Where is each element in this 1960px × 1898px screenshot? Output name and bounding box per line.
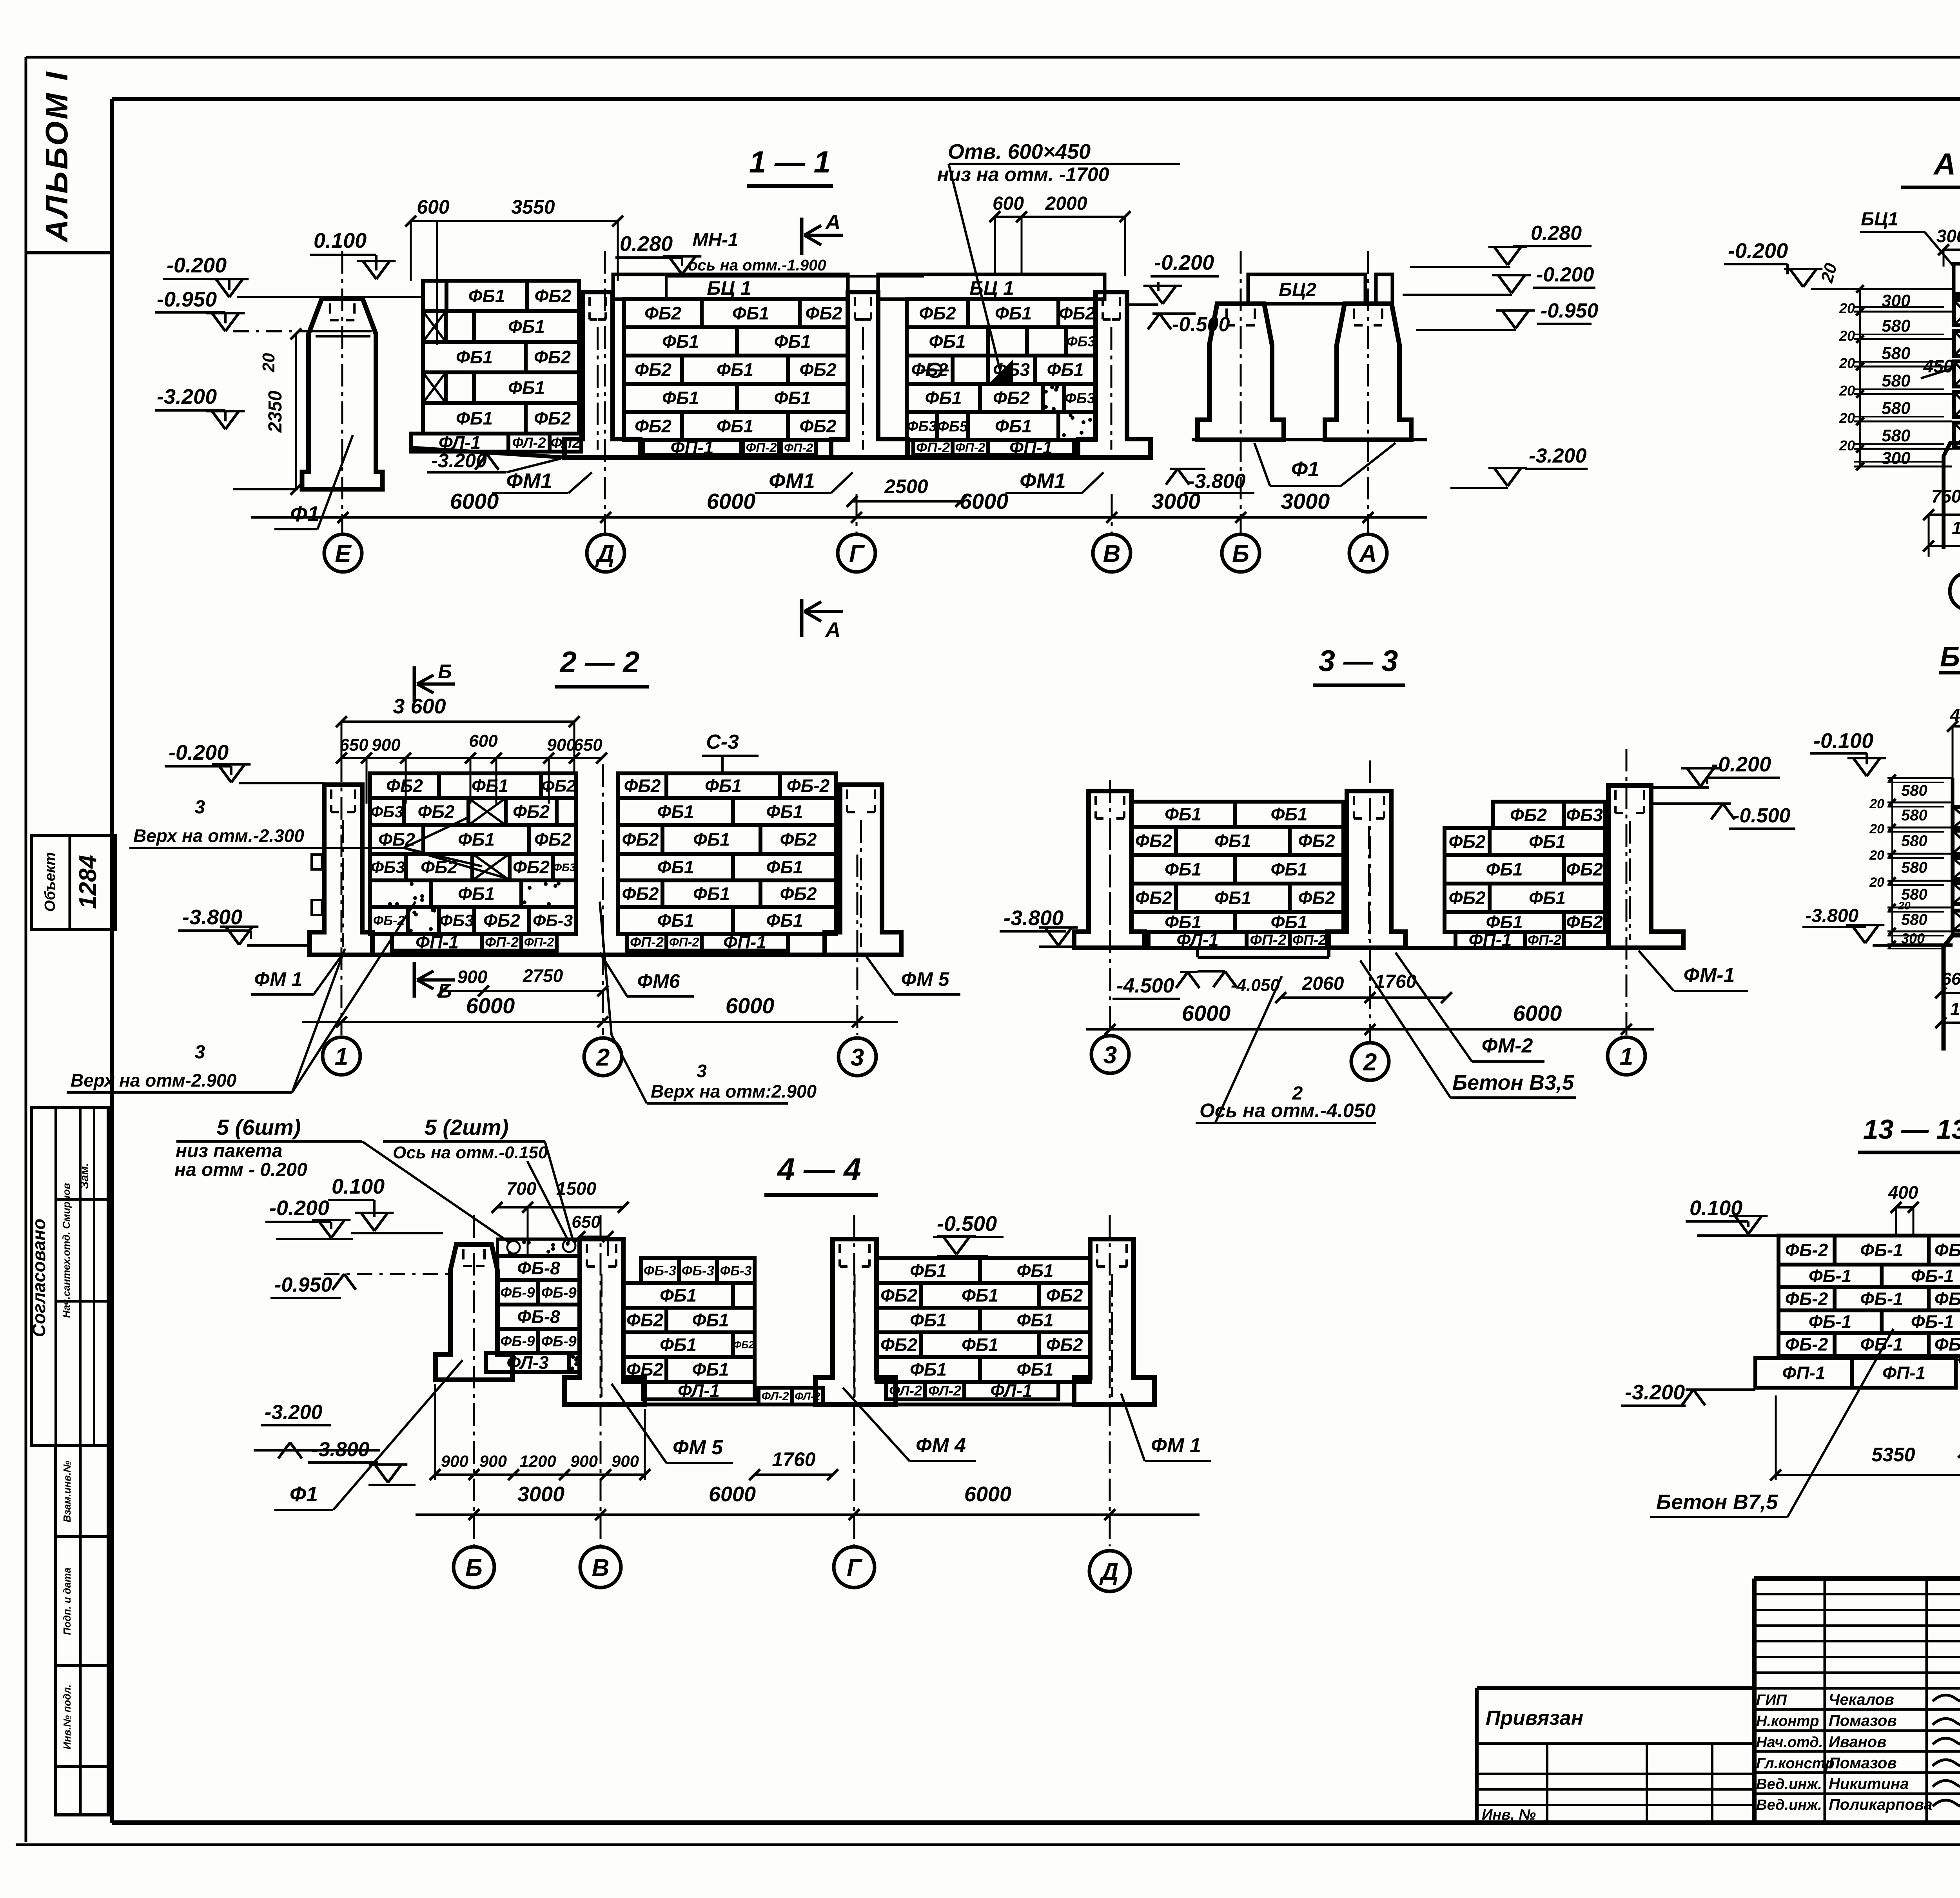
label F1 right <box>1254 443 1396 486</box>
axis bubble 1 3-3 <box>1608 1037 1645 1075</box>
svg-text:ФП-2: ФП-2 <box>746 440 777 455</box>
svg-text:ФП-1: ФП-1 <box>416 932 459 953</box>
svg-text:300: 300 <box>1882 449 1911 468</box>
svg-text:ФБ3: ФБ3 <box>907 418 937 434</box>
label F1 left <box>274 435 353 529</box>
svg-text:20: 20 <box>1898 900 1911 912</box>
svg-text:Взам.инв.№: Взам.инв.№ <box>61 1461 73 1522</box>
level 0.100 4-4 <box>328 1175 443 1233</box>
svg-text:ФЛ-2: ФЛ-2 <box>889 1383 922 1399</box>
base flare 13-13 <box>1959 1358 1960 1388</box>
svg-text:В: В <box>1103 540 1121 567</box>
svg-text:Нач.сантех.отд. Смирнов: Нач.сантех.отд. Смирнов <box>60 1183 72 1318</box>
svg-text:5 (6шт): 5 (6шт) <box>217 1115 301 1140</box>
axis bubble D 4-4 <box>1089 1551 1130 1591</box>
svg-text:ФБ-9: ФБ-9 <box>501 1285 535 1301</box>
svg-text:ФЛ-1: ФЛ-1 <box>990 1381 1032 1401</box>
svg-text:А: А <box>825 618 841 642</box>
svg-text:Привязан: Привязан <box>1486 1707 1583 1729</box>
svg-text:ФП-2: ФП-2 <box>784 441 813 454</box>
svg-text:ФМ6: ФМ6 <box>637 970 680 992</box>
levels stack right of section 1-1 <box>1403 222 1599 488</box>
slab row FP under wall 3 <box>913 437 1074 458</box>
axis bubble B <box>1222 534 1259 572</box>
svg-text:3000: 3000 <box>1281 489 1330 514</box>
svg-text:Чекалов: Чекалов <box>1829 1691 1894 1708</box>
svg-text:ФБ3: ФБ3 <box>371 858 405 877</box>
svg-text:ФБ1: ФБ1 <box>962 1335 998 1355</box>
slab FL-1 4-4 wall2 <box>643 1381 755 1401</box>
svg-text:МН-1: МН-1 <box>692 230 738 250</box>
svg-text:900: 900 <box>479 1452 507 1470</box>
svg-text:ФП-2: ФП-2 <box>669 935 699 949</box>
svg-text:6000: 6000 <box>466 993 515 1018</box>
centerline axis 2 2-2 <box>602 764 604 1035</box>
level -0.500 3-3 <box>1651 804 1795 829</box>
level 0.100 13-13 <box>1686 1196 1779 1236</box>
beam strip BC1 over wall3 <box>878 274 1105 299</box>
svg-text:3 600: 3 600 <box>393 695 446 718</box>
svg-text:3: 3 <box>851 1044 864 1071</box>
block wall 4-4 B-V <box>497 1256 580 1353</box>
level -0.500 right <box>1148 313 1230 336</box>
svg-text:Д: Д <box>1099 1558 1119 1585</box>
svg-text:2750: 2750 <box>523 965 563 986</box>
svg-text:-0.200: -0.200 <box>1536 263 1594 286</box>
axis bubble V <box>1093 534 1131 572</box>
svg-text:Помазов: Помазов <box>1829 1755 1897 1772</box>
slab row 4-4 wall3 <box>886 1381 1058 1401</box>
centerline axis V 4-4 <box>600 1215 602 1546</box>
svg-text:-3.200: -3.200 <box>157 385 217 408</box>
svg-text:ФБ2: ФБ2 <box>1046 1285 1083 1306</box>
stamp column podpis i data <box>56 1537 108 1666</box>
dim 450 150 A-A <box>1921 352 1960 378</box>
svg-text:Никитина: Никитина <box>1829 1775 1909 1793</box>
opening filled triangle <box>990 359 1013 382</box>
block wall 3-3 left <box>1131 802 1343 932</box>
svg-text:ФЛ-2: ФЛ-2 <box>762 1390 789 1403</box>
svg-text:ГИП: ГИП <box>1756 1692 1787 1708</box>
svg-text:-0.500: -0.500 <box>1172 313 1230 336</box>
svg-text:ФБ2: ФБ2 <box>799 359 836 380</box>
svg-text:-0.200: -0.200 <box>169 741 229 764</box>
label FM1 2-2 <box>251 956 341 994</box>
label FM1 4-4 <box>1121 1394 1211 1461</box>
svg-text:3: 3 <box>195 797 205 818</box>
svg-text:-3.800: -3.800 <box>312 1438 370 1461</box>
section title A-A <box>1901 147 1960 187</box>
svg-text:580: 580 <box>1901 859 1927 876</box>
svg-text:1 — 1: 1 — 1 <box>749 145 831 179</box>
block wall 2-2 left <box>370 773 576 934</box>
svg-text:ФБ1: ФБ1 <box>995 303 1032 323</box>
svg-text:ФБ2: ФБ2 <box>386 776 423 796</box>
label FM5 <box>866 956 960 994</box>
svg-text:ФБ1: ФБ1 <box>1047 359 1083 380</box>
svg-text:Ф1: Ф1 <box>1291 457 1319 481</box>
svg-text:2 — 2: 2 — 2 <box>559 646 640 679</box>
svg-text:ФБ1: ФБ1 <box>1486 859 1523 880</box>
level -0.200 left <box>163 254 421 297</box>
svg-text:580: 580 <box>1901 833 1927 850</box>
left dim stack 300 580 A-A <box>1817 261 1952 470</box>
svg-text:ФМ1: ФМ1 <box>1020 469 1066 493</box>
svg-text:ФБ1: ФБ1 <box>774 388 811 408</box>
callout 3 verh na otm -2.900 lower <box>67 902 416 1092</box>
level 0.100 above footing F1-E <box>310 229 396 279</box>
centerline axis D 4-4 <box>1109 1215 1111 1546</box>
callout 3 verh na otm 2.900 bottom <box>600 902 817 1103</box>
svg-text:ФБ1: ФБ1 <box>458 829 495 850</box>
svg-text:ФБ2: ФБ2 <box>1566 859 1603 880</box>
svg-text:6000: 6000 <box>707 489 756 514</box>
svg-text:1500: 1500 <box>556 1178 597 1199</box>
svg-text:ФП-1: ФП-1 <box>1782 1363 1826 1383</box>
callout C-3 <box>702 731 759 773</box>
svg-text:2000: 2000 <box>1045 193 1087 214</box>
title block frame <box>1754 1579 1960 1823</box>
svg-text:ФБ2: ФБ2 <box>513 802 550 822</box>
svg-text:ФП-2: ФП-2 <box>630 934 664 950</box>
pilaster axis D 4-4 <box>1074 1239 1154 1404</box>
svg-text:-4.050: -4.050 <box>1231 976 1280 995</box>
dim 1200 B-B <box>1935 999 1960 1028</box>
svg-text:ФБ2: ФБ2 <box>534 286 571 306</box>
svg-text:-3.800: -3.800 <box>1805 905 1858 926</box>
pilaster axis 2 2-2 <box>825 785 901 955</box>
block wall 4-4 V-G <box>623 1258 755 1382</box>
dim row 900 900 1200 900 900 4-4 <box>430 1384 650 1480</box>
svg-text:ФМ-2: ФМ-2 <box>1482 1034 1533 1057</box>
svg-text:ФБ3: ФБ3 <box>370 803 403 821</box>
svg-text:0.100: 0.100 <box>314 229 367 252</box>
svg-text:20: 20 <box>259 353 278 372</box>
svg-text:ФБ1: ФБ1 <box>717 416 753 436</box>
svg-text:Ф1: Ф1 <box>290 501 319 526</box>
axis bubble G 4-4 <box>834 1547 875 1588</box>
svg-text:Н.контр: Н.контр <box>1756 1713 1819 1729</box>
svg-text:ФБ2: ФБ2 <box>993 388 1030 408</box>
base line FM1 right span <box>907 455 1078 460</box>
svg-text:ФБ1: ФБ1 <box>1214 831 1251 851</box>
soglasovano stamp box <box>29 1107 108 1446</box>
svg-text:ФБ2: ФБ2 <box>534 347 571 367</box>
svg-text:ФП-2: ФП-2 <box>485 934 519 950</box>
level -3.200 left <box>155 385 298 489</box>
level -0.200 2-2 <box>165 741 324 783</box>
svg-text:-0.200: -0.200 <box>1154 251 1214 274</box>
svg-text:ФБ1: ФБ1 <box>910 1261 947 1281</box>
svg-text:20: 20 <box>1839 437 1855 454</box>
level -3.800 2-2 <box>178 905 310 945</box>
svg-text:ФБ2: ФБ2 <box>635 416 671 436</box>
callout BC1 A-A <box>1860 209 1954 267</box>
svg-text:Помазов: Помазов <box>1829 1712 1897 1729</box>
svg-text:ФБ2: ФБ2 <box>483 910 520 931</box>
slab row 2-2 right <box>627 932 788 953</box>
svg-text:1200: 1200 <box>519 1452 556 1470</box>
svg-text:ФБ2: ФБ2 <box>622 884 659 904</box>
svg-text:700: 700 <box>506 1178 537 1199</box>
svg-text:ФП-1: ФП-1 <box>723 932 766 953</box>
svg-text:ФБ3: ФБ3 <box>1067 333 1096 349</box>
slab row 3-3 right <box>1455 930 1564 950</box>
centerline axis A <box>1367 251 1369 533</box>
svg-text:6000: 6000 <box>964 1482 1011 1506</box>
svg-text:ФБ1: ФБ1 <box>1165 912 1201 932</box>
svg-text:ФБ-2: ФБ-2 <box>1785 1240 1828 1260</box>
block wall 4-4 G-D <box>877 1258 1090 1382</box>
svg-text:ФБ-9: ФБ-9 <box>501 1333 535 1349</box>
ground line 4-4 <box>564 1403 1154 1406</box>
axis bubble 3 2-2 <box>838 1038 876 1076</box>
svg-text:-3.200: -3.200 <box>1625 1381 1685 1404</box>
svg-text:ФБ1: ФБ1 <box>508 316 545 337</box>
svg-text:ФБ1: ФБ1 <box>472 776 508 796</box>
svg-text:6000: 6000 <box>726 993 775 1018</box>
callout Otv 600x450 niz na otm -1700 <box>937 140 1180 368</box>
svg-text:900: 900 <box>612 1452 639 1470</box>
dim 650 4-4 <box>572 1212 613 1256</box>
svg-text:ФБ-3: ФБ-3 <box>1935 1289 1960 1309</box>
object stamp box 1284 <box>31 835 115 929</box>
svg-text:580: 580 <box>1901 807 1927 824</box>
svg-text:900: 900 <box>441 1452 468 1470</box>
base line FM1 mid span <box>640 455 831 460</box>
svg-text:ФБ1: ФБ1 <box>1529 831 1566 852</box>
svg-text:ФБ2: ФБ2 <box>1059 303 1095 323</box>
svg-text:ФБ-2: ФБ-2 <box>1785 1334 1828 1355</box>
centerline axis 1 3-3 <box>1626 749 1628 1037</box>
axis bubble 2 3-3 <box>1351 1043 1389 1080</box>
svg-text:580: 580 <box>1901 782 1927 799</box>
main dimension line 2-2 <box>302 993 898 1027</box>
svg-text:ФБ1: ФБ1 <box>458 884 495 904</box>
slab row 2-2 left <box>392 932 557 953</box>
centerline axis 3 2-2 <box>857 855 858 1035</box>
stamp column vzam inv <box>56 1446 108 1815</box>
svg-text:ФМ 1: ФМ 1 <box>1151 1434 1201 1457</box>
svg-text:2500: 2500 <box>884 475 928 497</box>
svg-text:0.280: 0.280 <box>1531 222 1582 245</box>
svg-text:6000: 6000 <box>709 1482 756 1506</box>
svg-text:6000: 6000 <box>450 489 499 514</box>
svg-text:ФБ-9: ФБ-9 <box>541 1285 576 1301</box>
svg-text:ФБ2: ФБ2 <box>622 829 659 850</box>
pilaster axis 3 3-3 <box>1074 791 1145 948</box>
pilaster axis G 4-4 <box>815 1239 896 1404</box>
label FM4 4-4 <box>843 1388 976 1461</box>
svg-text:Поликарпова: Поликарпова <box>1829 1796 1933 1813</box>
dim row 650 900 600 900 650 2-2 <box>336 731 607 804</box>
svg-text:ФЛ-1: ФЛ-1 <box>678 1381 720 1401</box>
section cut arrow B top 2-2 <box>414 660 455 702</box>
svg-text:ФБ1: ФБ1 <box>692 1310 729 1330</box>
svg-text:низ на отм. -1700: низ на отм. -1700 <box>937 163 1109 185</box>
svg-text:ФБ1: ФБ1 <box>692 1359 729 1380</box>
svg-text:ФБ2: ФБ2 <box>1510 805 1547 825</box>
svg-text:1: 1 <box>335 1043 348 1070</box>
svg-text:Объект: Объект <box>42 852 58 912</box>
svg-text:ФБ-1: ФБ-1 <box>1809 1266 1851 1286</box>
svg-text:ФБ1: ФБ1 <box>962 1285 998 1306</box>
svg-text:Ось на отм.-4.050: Ось на отм.-4.050 <box>1200 1100 1376 1121</box>
level -0.200 mid <box>1127 251 1219 305</box>
svg-text:БЦ1: БЦ1 <box>1861 209 1898 230</box>
svg-text:ФП-2: ФП-2 <box>955 441 985 455</box>
axis bubble D <box>587 534 624 572</box>
block wall 1-1 between G and V <box>907 299 1096 440</box>
dim 900 2750 2-2 <box>437 965 608 996</box>
footing F1 axis E <box>302 299 383 489</box>
svg-text:2350: 2350 <box>265 390 286 433</box>
svg-text:ФБ1: ФБ1 <box>717 359 753 380</box>
svg-text:БЦ 1: БЦ 1 <box>969 277 1014 299</box>
centerline axis V <box>1111 494 1113 533</box>
level -3.200 4-4 <box>254 1401 380 1459</box>
level -0.200 A-A left <box>1724 239 1954 289</box>
anchor circle symbol in wall <box>921 364 949 377</box>
svg-text:Верх на отм:2.900: Верх на отм:2.900 <box>651 1081 817 1101</box>
block wall 1-1 between D and G <box>624 299 848 440</box>
svg-text:ФБ2: ФБ2 <box>626 1359 663 1380</box>
centerline axis D <box>604 251 606 533</box>
svg-text:Согласовано: Согласовано <box>29 1219 49 1337</box>
axis bubble B 4-4 <box>454 1547 494 1588</box>
svg-text:Г: Г <box>849 540 865 567</box>
pilaster axis V <box>1078 292 1151 457</box>
svg-text:ФБ2: ФБ2 <box>534 829 571 850</box>
svg-text:ФМ1: ФМ1 <box>506 469 552 493</box>
svg-text:400: 400 <box>1888 1182 1918 1203</box>
svg-text:3 — 3: 3 — 3 <box>1319 644 1398 678</box>
section title 13-13 <box>1858 1114 1960 1152</box>
svg-text:ФБ1: ФБ1 <box>910 1310 947 1330</box>
axis bubble 1 2-2 <box>323 1037 360 1075</box>
dim 5350 13-13 <box>1770 1395 1960 1481</box>
svg-text:Иванов: Иванов <box>1829 1733 1886 1751</box>
svg-text:20: 20 <box>1839 300 1855 316</box>
svg-text:С-3: С-3 <box>706 731 739 753</box>
svg-text:ФБ-8: ФБ-8 <box>517 1306 560 1327</box>
pilaster axis D <box>564 292 640 457</box>
monolith top 4-4 wall1 <box>497 1239 580 1256</box>
dim 600 3550 above wall <box>405 196 623 345</box>
level -3.200 under wall1 <box>427 450 561 472</box>
svg-text:БЦ2: БЦ2 <box>1279 279 1316 300</box>
section title 1-1 <box>747 145 833 186</box>
svg-text:2: 2 <box>596 1044 610 1071</box>
section title 4-4 <box>764 1152 878 1195</box>
svg-text:Б: Б <box>1232 540 1249 567</box>
dim 450 150 B-B <box>1947 705 1960 778</box>
svg-text:низ пакета: низ пакета <box>176 1141 283 1161</box>
svg-text:ФБ-3: ФБ-3 <box>682 1263 715 1279</box>
svg-text:ФБ2: ФБ2 <box>417 802 454 822</box>
svg-text:ФБ2: ФБ2 <box>780 829 817 850</box>
slab row 3-3 left <box>1149 930 1329 950</box>
svg-text:1760: 1760 <box>772 1448 815 1470</box>
pilaster axis G <box>831 292 907 457</box>
svg-text:ФБ2: ФБ2 <box>644 303 681 323</box>
svg-text:Г: Г <box>847 1554 863 1581</box>
section title 2-2 <box>555 646 649 687</box>
svg-text:Нач.отд.: Нач.отд. <box>1756 1734 1823 1751</box>
footing F1 axis A right <box>1325 304 1411 440</box>
svg-text:-0.500: -0.500 <box>1733 804 1791 827</box>
svg-text:Инв.№ подл.: Инв.№ подл. <box>61 1684 73 1749</box>
base line FM1 left span <box>409 448 564 457</box>
label FM1 under wall3 <box>1005 469 1103 493</box>
signature squiggles <box>1933 1688 1960 1807</box>
svg-text:300: 300 <box>1882 291 1911 310</box>
level -3.200 13-13 <box>1621 1381 1755 1406</box>
dim 1200 13-13 <box>1958 1395 1960 1458</box>
svg-text:20: 20 <box>1869 848 1884 863</box>
stamp column inv n podl <box>56 1666 108 1815</box>
axis bubble 3 3-3 <box>1091 1036 1129 1073</box>
svg-text:-0.100: -0.100 <box>1813 729 1873 753</box>
svg-text:ФБ1: ФБ1 <box>1529 888 1566 908</box>
left dim stack B-B <box>1869 775 1953 949</box>
axis bubble V 4-4 <box>580 1547 621 1588</box>
pilaster axis V 4-4 <box>564 1239 645 1404</box>
svg-text:ФЛ-2: ФЛ-2 <box>512 435 546 451</box>
signature table names <box>1756 1691 1933 1813</box>
svg-text:Вед.инж.: Вед.инж. <box>1756 1776 1822 1793</box>
privyazan table <box>1477 1688 1754 1823</box>
svg-text:ФБ2: ФБ2 <box>534 408 571 428</box>
level -4.500 3-3 <box>1112 972 1200 999</box>
ground line 3-3 <box>1074 946 1683 950</box>
svg-text:ФБ1: ФБ1 <box>766 857 803 877</box>
svg-text:-0.500: -0.500 <box>937 1212 997 1236</box>
svg-text:900: 900 <box>372 735 401 755</box>
slab row FL under wall 1 <box>411 432 581 453</box>
svg-text:ФМ-1: ФМ-1 <box>1684 964 1735 987</box>
svg-text:600: 600 <box>417 196 450 218</box>
svg-text:ФБ-1: ФБ-1 <box>1809 1312 1851 1332</box>
slab FL-3 4-4 <box>486 1352 580 1373</box>
svg-text:900: 900 <box>457 967 488 987</box>
svg-text:3: 3 <box>697 1061 707 1081</box>
svg-text:Бетон В7,5: Бетон В7,5 <box>1656 1490 1778 1514</box>
svg-text:ФБ2: ФБ2 <box>513 857 550 877</box>
dim 2060 1760 3-3 <box>1275 971 1452 1003</box>
dim 700 1500 4-4 <box>492 1178 629 1256</box>
svg-text:ФБ1: ФБ1 <box>657 910 694 931</box>
svg-text:А: А <box>1359 540 1377 567</box>
footing shaft A-A <box>1944 443 1960 549</box>
svg-text:-0.200: -0.200 <box>1728 239 1788 263</box>
centerline axis G 4-4 <box>853 1215 855 1546</box>
svg-text:1284: 1284 <box>74 855 102 909</box>
svg-text:5350: 5350 <box>1871 1444 1915 1466</box>
svg-text:ФБ-3: ФБ-3 <box>533 911 573 930</box>
svg-text:Б — Б: Б — Б <box>1940 641 1960 673</box>
svg-text:660: 660 <box>1942 969 1960 989</box>
svg-text:ФБ1: ФБ1 <box>657 802 694 822</box>
svg-text:650: 650 <box>573 735 603 755</box>
svg-text:ФБ-1: ФБ-1 <box>1911 1266 1954 1286</box>
beam strip BC2 over footings B A <box>1248 274 1392 304</box>
svg-text:на отм - 0.200: на отм - 0.200 <box>174 1159 307 1180</box>
svg-text:ФБ-1: ФБ-1 <box>1860 1289 1903 1309</box>
centerline axis G <box>856 494 858 533</box>
svg-text:-3.200: -3.200 <box>265 1401 323 1424</box>
level -0.950 left <box>155 288 314 331</box>
